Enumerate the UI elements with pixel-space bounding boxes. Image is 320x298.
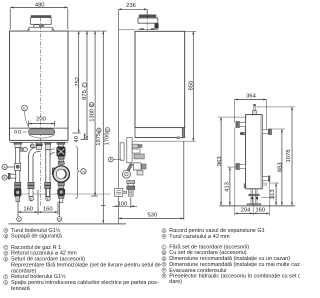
svg-text:Supapă de siguranță: Supapă de siguranță xyxy=(11,234,63,240)
separator top vent xyxy=(252,104,256,114)
svg-text:dare): dare) xyxy=(169,279,182,285)
svg-text:Turul cazanului ⌀ 42 mm: Turul cazanului ⌀ 42 mm xyxy=(169,234,230,240)
dimension 204+160 xyxy=(235,128,270,216)
dimension 963 xyxy=(218,117,246,205)
flue cap front view xyxy=(27,16,54,31)
legend item B xyxy=(4,234,63,240)
legend item O xyxy=(162,262,311,268)
pipe 3 boiler return F xyxy=(45,142,55,197)
separator bottom-left ribs xyxy=(244,184,246,188)
dimension 100 xyxy=(112,198,137,209)
vertical dim line 1300 M xyxy=(91,31,98,196)
vertical dim line 1975 N xyxy=(102,31,104,223)
label F xyxy=(46,197,50,202)
pump column G xyxy=(52,142,69,202)
side view body xyxy=(132,31,196,141)
svg-text:O: O xyxy=(163,263,166,267)
svg-text:752: 752 xyxy=(75,77,81,87)
legend item K xyxy=(4,280,159,286)
dimension 413 xyxy=(227,167,236,206)
svg-text:1975: 1975 xyxy=(96,133,102,146)
legend item M xyxy=(162,250,247,256)
svg-text:160: 160 xyxy=(23,206,33,212)
label C xyxy=(17,217,22,222)
dimension 160+160 bottom xyxy=(18,190,58,216)
svg-text:100: 100 xyxy=(118,201,128,207)
boiler front body xyxy=(10,31,69,140)
separator left nipple xyxy=(240,132,246,135)
legend item P xyxy=(162,268,227,274)
middle piping column xyxy=(115,138,146,197)
svg-text:L: L xyxy=(83,84,85,88)
dimension 313 xyxy=(261,183,279,206)
svg-text:F: F xyxy=(47,197,49,201)
pipe 1 boiler flow A xyxy=(8,142,27,201)
label E small circle at top xyxy=(30,144,34,148)
vertical dim line 752 xyxy=(78,31,80,133)
svg-text:1078: 1078 xyxy=(286,150,292,163)
svg-text:413: 413 xyxy=(225,182,231,192)
svg-text:F: F xyxy=(5,275,7,279)
svg-text:875: 875 xyxy=(82,90,88,100)
dimension 364 xyxy=(235,99,267,132)
svg-text:Cu set de racordare (accesoriu: Cu set de racordare (accesoriu) xyxy=(169,250,247,256)
svg-text:200: 200 xyxy=(36,117,46,123)
dimension 200 xyxy=(29,121,55,127)
short ref line top xyxy=(119,29,135,31)
svg-text:883: 883 xyxy=(278,162,284,172)
wall reference line xyxy=(117,9,119,223)
svg-text:530: 530 xyxy=(147,212,157,218)
svg-text:O: O xyxy=(106,128,109,132)
boiler front internal line xyxy=(10,127,69,129)
svg-text:Spațiu pentru introducerea cab: Spațiu pentru introducerea cablurilor el… xyxy=(11,280,159,286)
legend item D xyxy=(4,251,77,257)
svg-text:G: G xyxy=(163,229,166,233)
label B xyxy=(2,175,8,180)
label G xyxy=(57,202,62,222)
dimension 530 xyxy=(119,141,184,219)
flue cap side view xyxy=(138,15,159,30)
separator ground xyxy=(220,205,296,207)
svg-text:40: 40 xyxy=(74,136,80,142)
svg-text:G: G xyxy=(58,218,61,222)
svg-text:L: L xyxy=(163,245,165,249)
separator lower-right stub xyxy=(262,176,270,185)
legend item N xyxy=(162,256,290,262)
brace H xyxy=(76,146,87,199)
svg-text:963: 963 xyxy=(217,156,223,166)
vertical dim line 875 L xyxy=(86,31,88,139)
label P xyxy=(108,157,121,162)
svg-text:850: 850 xyxy=(188,81,194,91)
svg-text:364: 364 xyxy=(246,93,256,99)
separator upper-right stub xyxy=(262,129,272,135)
legend item R xyxy=(162,273,320,279)
boiler front bottom strip xyxy=(10,141,69,143)
dimension 236 xyxy=(118,8,147,14)
separator lower-left stub xyxy=(236,163,246,169)
svg-text:313: 313 xyxy=(270,189,276,199)
svg-text:160: 160 xyxy=(43,206,53,212)
burner dark band xyxy=(29,129,55,135)
svg-text:1700: 1700 xyxy=(105,133,111,146)
label K circle xyxy=(22,105,30,128)
centerline side flue xyxy=(146,10,148,31)
svg-text:236: 236 xyxy=(126,3,136,9)
legend item L xyxy=(162,245,249,251)
dimension 883 xyxy=(272,129,285,206)
separator body xyxy=(246,115,263,189)
label A xyxy=(2,164,15,169)
svg-text:terioară: terioară xyxy=(11,286,31,292)
svg-text:M: M xyxy=(90,103,93,107)
reference line under connection sets xyxy=(15,193,111,195)
legend item A xyxy=(4,227,61,234)
vertical dim line 1700 O xyxy=(101,205,106,207)
svg-text:1300: 1300 xyxy=(90,109,96,122)
label D below xyxy=(29,197,33,202)
svg-text:480: 480 xyxy=(35,3,45,9)
legend item C xyxy=(4,245,61,251)
pipe 2 elbow gas D xyxy=(28,142,42,196)
dimension 850 xyxy=(185,31,197,141)
legend item E xyxy=(4,257,85,263)
ground line left xyxy=(9,223,127,225)
centerline front xyxy=(39,18,41,208)
separator upper-left stub xyxy=(236,121,246,127)
svg-text:160: 160 xyxy=(255,208,265,214)
small dim 40 xyxy=(73,133,89,140)
top reference line right of boiler xyxy=(68,30,107,32)
bottom arc under band xyxy=(29,135,55,138)
small parts left inside xyxy=(15,131,17,133)
svg-text:Preselector hidraulic (accesor: Preselector hidraulic (accesoriu în comb… xyxy=(169,273,300,279)
svg-text:204: 204 xyxy=(241,208,251,214)
legend item H xyxy=(162,234,230,240)
svg-text:M: M xyxy=(163,251,166,255)
legend item G xyxy=(162,228,265,234)
separator foot xyxy=(247,189,261,206)
legend item F xyxy=(4,273,66,280)
dimension 480 top xyxy=(10,6,68,29)
dimension 1078 xyxy=(256,107,295,206)
